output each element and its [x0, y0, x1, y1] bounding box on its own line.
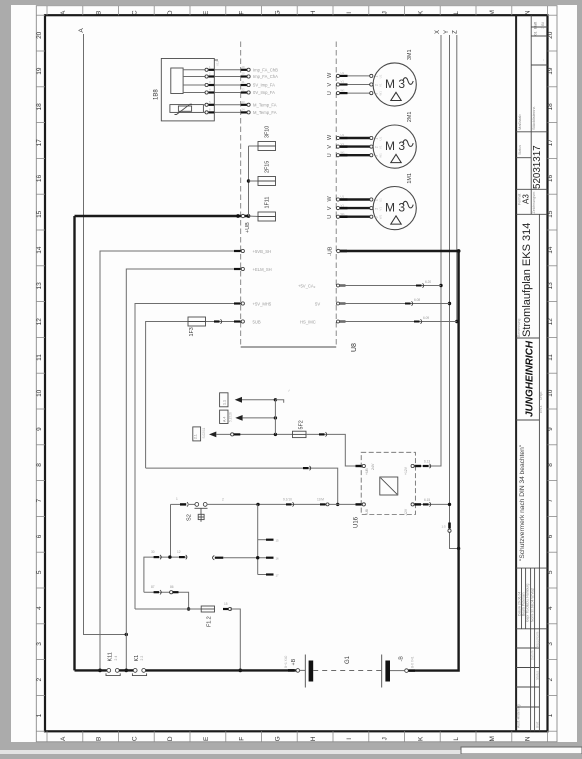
svg-text:E: E	[203, 736, 210, 741]
svg-text:24V: 24V	[371, 463, 375, 470]
svg-text:W1: W1	[379, 91, 383, 96]
wire junction column vertical	[274, 400, 276, 435]
svg-text:9.1/10: 9.1/10	[283, 498, 292, 502]
thermistor symbol	[178, 106, 191, 111]
svg-text:16: 16	[276, 557, 280, 561]
connector pin into U8 row 6	[241, 111, 248, 113]
wire rail 145 through 1F3	[146, 322, 241, 469]
connector pin pair out+	[423, 465, 429, 467]
svg-text:+5V_MH5: +5V_MH5	[253, 302, 272, 307]
switch S2 key switch	[195, 503, 199, 507]
junction U16 out- / Y	[448, 503, 451, 506]
svg-text:G: G	[274, 10, 281, 15]
svg-text:V1: V1	[379, 145, 383, 149]
junction Y / -B	[457, 547, 460, 550]
junction fuse feeder 2F15	[247, 179, 250, 182]
svg-text:5V_Imp_FA: 5V_Imp_FA	[253, 83, 275, 88]
svg-text:11: 11	[547, 354, 554, 361]
signature table top divider	[516, 567, 547, 569]
wire F1.2 feed	[189, 608, 202, 610]
svg-text:11/M: 11/M	[317, 498, 324, 502]
svg-text:A: A	[60, 10, 67, 15]
connector pin pair row 468	[303, 467, 309, 469]
svg-text:V1: V1	[379, 207, 383, 211]
svg-text:4: 4	[36, 606, 43, 610]
fuse 2F15	[258, 177, 276, 186]
fuse 3F10	[258, 142, 276, 151]
wire rail 100 to U8 pin	[100, 251, 241, 670]
svg-text:K11: K11	[108, 652, 114, 661]
connector pin battery plus	[288, 669, 295, 672]
svg-text:19: 19	[242, 65, 246, 69]
svg-text:M 3: M 3	[385, 77, 405, 91]
junction X / U8 wire	[439, 284, 442, 287]
svg-text:14: 14	[36, 246, 43, 254]
ruler row ticks right	[548, 14, 558, 16]
svg-text:17: 17	[547, 139, 554, 147]
svg-text:-UB: -UB	[365, 508, 369, 515]
sheet reference box 3	[193, 427, 201, 441]
svg-text:13: 13	[547, 282, 554, 290]
wire -UB thick to -B rail	[340, 250, 459, 252]
svg-text:B-6 X41: B-6 X41	[411, 656, 415, 668]
svg-text:X12: X12	[216, 60, 220, 66]
ruler column ticks bottom	[46, 731, 48, 742]
junction +UB fuse rail	[247, 214, 251, 218]
comb stub 2 dash	[266, 557, 274, 559]
converter U16 box (dashed)	[361, 452, 415, 514]
svg-text:L: L	[453, 737, 460, 741]
motor 2M1 feed wires	[336, 136, 339, 139]
motor 1M1 circle	[373, 187, 416, 230]
svg-text:6.15: 6.15	[424, 498, 430, 502]
wire Y vertical	[450, 35, 459, 549]
wire 1B8 signal row 6	[203, 111, 205, 113]
svg-text:5: 5	[36, 570, 43, 574]
svg-text:30: 30	[151, 550, 155, 554]
wire S2 row	[171, 503, 181, 505]
connector pin pair row592	[154, 591, 159, 593]
svg-text:B: B	[96, 11, 103, 15]
svg-text:K: K	[417, 10, 424, 15]
svg-text:V: V	[327, 145, 333, 149]
svg-text:13: 13	[36, 282, 43, 290]
svg-text:52031317: 52031317	[532, 145, 543, 189]
svg-text:Y: Y	[444, 30, 450, 34]
op-amp U8 right boundary (dashed)	[335, 42, 337, 348]
svg-text:-12V: -12V	[404, 508, 408, 516]
wire -B return thick	[415, 251, 459, 671]
motor 2M1 delta winding symbol	[391, 154, 401, 162]
svg-text:10: 10	[36, 389, 43, 397]
wire stub to 3F10	[249, 145, 259, 147]
motor 1M1 feed wires	[336, 198, 339, 201]
motor 3M1 delta winding symbol	[391, 92, 401, 100]
logo cell bottom divider	[516, 419, 539, 421]
svg-text:4: 4	[547, 606, 554, 610]
motor 3M1 circle	[373, 63, 416, 106]
svg-text:1: 1	[176, 497, 178, 501]
svg-text:1: 1	[547, 713, 554, 717]
svg-text:5: 5	[547, 570, 554, 574]
svg-text:18: 18	[547, 103, 554, 111]
title block divider	[531, 64, 547, 66]
wire S2 to U16	[207, 503, 355, 505]
comb stub 1	[258, 539, 266, 541]
svg-text:15: 15	[276, 539, 280, 543]
svg-text:6.13: 6.13	[424, 460, 430, 464]
revision table rows	[516, 628, 547, 630]
svg-text:9: 9	[36, 427, 43, 431]
svg-text:22: 22	[242, 88, 246, 92]
junction -UB corner	[457, 249, 461, 253]
title cell divider	[516, 213, 547, 215]
svg-text:A3: A3	[522, 194, 531, 204]
Massstab cell	[516, 131, 547, 133]
svg-text:F: F	[239, 737, 246, 741]
connector pin into U8 row 3	[241, 84, 248, 86]
svg-text:K1: K1	[134, 655, 140, 662]
connector pin pair after 5F2	[319, 433, 325, 435]
svg-text:S2: S2	[187, 514, 193, 521]
wire net A vertical	[84, 34, 127, 635]
junction ref1	[274, 398, 277, 401]
svg-text:3 Bl: 3 Bl	[541, 22, 545, 28]
svg-text:W1: W1	[341, 150, 346, 154]
connector pin U8 right -UB	[337, 249, 340, 252]
connector pin U16 in-	[356, 503, 362, 505]
connector pin +UB into U8	[241, 214, 244, 217]
wire U8 signal y303	[337, 302, 340, 305]
connector pin pair y285	[416, 285, 422, 287]
fuse 1F11	[258, 212, 276, 221]
wire +UB rail left vertical thick	[73, 216, 75, 670]
1B8 thermistor compartment	[170, 105, 204, 113]
svg-text:U: U	[327, 91, 333, 95]
svg-text:B: B	[96, 737, 103, 741]
wire ref2	[243, 417, 276, 419]
svg-text:M 3: M 3	[385, 139, 405, 153]
svg-text:C: C	[131, 10, 138, 15]
svg-text:1: 1	[36, 713, 43, 717]
svg-text:J: J	[382, 737, 389, 740]
junction Z / U8 wire	[455, 320, 458, 323]
wire battery bus thick	[75, 669, 107, 671]
junction F1.2 bus	[238, 669, 242, 673]
svg-text:HS_IMC: HS_IMC	[300, 320, 316, 325]
svg-text:15: 15	[547, 210, 554, 218]
connector pin pair row557	[154, 556, 159, 558]
sensor 1B8 connector tick	[214, 59, 218, 61]
svg-text:F: F	[239, 11, 246, 15]
contact K1	[133, 669, 137, 673]
wire bus segment to battery	[146, 669, 297, 671]
svg-text:I: I	[346, 738, 353, 740]
svg-text:Blatt: Blatt	[536, 722, 540, 728]
svg-text:86: 86	[170, 585, 174, 589]
svg-text:10: 10	[547, 389, 554, 397]
svg-text:16: 16	[36, 175, 43, 183]
svg-text:20: 20	[547, 31, 554, 39]
svg-text:6: 6	[36, 534, 43, 538]
svg-text:8: 8	[547, 463, 554, 467]
svg-text:7: 7	[36, 499, 43, 503]
connector pin into U8 row 2	[241, 75, 248, 77]
signature table columns	[521, 568, 523, 629]
svg-text:Status: Status	[518, 145, 522, 155]
title block left boundary	[515, 15, 517, 731]
connector pin U8 left y303	[234, 302, 241, 304]
Format cell	[516, 188, 547, 190]
svg-text:F1.2: F1.2	[207, 616, 213, 627]
wire ref3 to 5F2	[216, 433, 292, 435]
svg-text:2: 2	[547, 678, 554, 682]
title block column divider upper	[530, 15, 532, 214]
wire U8 signal y285	[337, 284, 340, 287]
svg-text:I: I	[346, 12, 353, 14]
svg-text:16: 16	[547, 175, 554, 183]
wire stub hook	[275, 400, 283, 403]
svg-text:W1: W1	[341, 212, 346, 216]
svg-text:Datum: Datum	[531, 650, 535, 660]
reference arrow 2.2	[235, 415, 242, 421]
wire X vertical	[415, 35, 441, 466]
svg-text:+UB: +UB	[245, 222, 251, 233]
wire stub to 2F15	[249, 180, 259, 182]
connector pin into U8 row 5	[241, 104, 248, 106]
svg-text:M: M	[489, 736, 496, 741]
svg-text:M: M	[489, 10, 496, 15]
wire stub to 1F11	[249, 215, 259, 218]
Status cell divider	[516, 157, 531, 159]
connector pin on Y wire	[448, 523, 451, 529]
connector pin pair out-	[423, 503, 429, 505]
svg-text:2 2: 2 2	[140, 656, 144, 661]
connector pin pair y321	[414, 321, 420, 323]
comb stub 3	[258, 574, 266, 576]
svg-text:1:5: 1:5	[442, 525, 447, 529]
connector pin pair S2 row a	[286, 503, 292, 505]
svg-text:V1: V1	[379, 83, 383, 87]
wire F1.2 to battery bus	[230, 609, 240, 670]
svg-text:12: 12	[36, 318, 43, 326]
svg-text:W1: W1	[379, 214, 383, 219]
connector pin pair row592 right	[170, 591, 173, 594]
svg-text:U16: U16	[354, 516, 360, 528]
svg-text:N: N	[525, 736, 532, 741]
wire ref1	[242, 399, 275, 401]
svg-text:3: 3	[36, 642, 43, 646]
motor 3M1 feed wires	[336, 74, 339, 77]
connector pin pair on 1F3 wire	[214, 320, 220, 322]
ruler row ticks left	[36, 14, 45, 16]
connector pin on ref3 wire	[231, 433, 234, 436]
wire comb vertical	[257, 504, 259, 574]
svg-text:Norm 30.68.04 W.Vogt: Norm 30.68.04 W.Vogt	[531, 588, 535, 622]
connector pin U8 left y321	[234, 320, 241, 322]
svg-text:"Schutzvermerk nach DIN 34 bea: "Schutzvermerk nach DIN 34 beachten"	[519, 444, 526, 561]
svg-text:8: 8	[36, 463, 43, 467]
wire 1B8 signal row 2	[183, 76, 206, 78]
svg-text:5V: 5V	[315, 302, 320, 307]
wire rail135 to F1.2	[135, 608, 189, 610]
wire rail 135 to U8 pin	[135, 304, 241, 610]
svg-text:17: 17	[276, 573, 280, 577]
svg-text:Ausf.-Änderung: Ausf.-Änderung	[517, 704, 521, 728]
svg-text:V: V	[327, 206, 333, 210]
svg-text:K: K	[417, 736, 424, 741]
connector pin pair S2 row b	[320, 503, 326, 505]
svg-text:D: D	[167, 736, 174, 741]
svg-text:+UB: +UB	[365, 468, 369, 475]
connector pin U16 out+	[411, 464, 414, 467]
battery G1 minus plates	[381, 655, 383, 688]
wire U16 out+ to X	[414, 465, 417, 467]
svg-text:Zeichnungsnr.: Zeichnungsnr.	[532, 191, 536, 214]
junction ref2	[274, 416, 277, 419]
svg-text:Stromlaufplan EKS 314: Stromlaufplan EKS 314	[521, 223, 533, 337]
junction rail126 battery bus	[124, 669, 128, 673]
svg-text:C: C	[131, 736, 138, 741]
svg-text:U8: U8	[351, 343, 358, 352]
wire U16 out- to Y	[421, 503, 450, 505]
svg-text:6.09: 6.09	[423, 316, 429, 320]
svg-text:JUNGHEINRICH: JUNGHEINRICH	[525, 340, 536, 417]
svg-text:19: 19	[547, 67, 554, 75]
svg-text:A.4: A.4	[223, 417, 227, 422]
wire 1B8 signal row 5	[203, 104, 205, 106]
junction rail100 battery bus	[98, 669, 102, 673]
svg-text:1M1: 1M1	[407, 173, 413, 184]
svg-text:B+1 X40: B+1 X40	[284, 655, 288, 668]
wire 5F2 to U16	[306, 434, 356, 466]
svg-text:E: E	[203, 10, 210, 15]
svg-text:19: 19	[36, 67, 43, 75]
connector pin U8 left y251	[234, 250, 241, 252]
svg-text:Blatt: Blatt	[534, 22, 538, 29]
svg-text:2.1: 2.1	[194, 434, 198, 439]
svg-text:U: U	[327, 215, 333, 219]
connector pin pair row557 right	[179, 556, 185, 558]
svg-text:U1: U1	[341, 195, 345, 199]
wire bus segment K11-K1	[119, 669, 133, 671]
wire into S2	[189, 503, 195, 505]
junction row557	[168, 555, 171, 558]
junction column 275	[274, 433, 277, 436]
svg-text:18: 18	[36, 103, 43, 111]
svg-text:6.08: 6.08	[414, 298, 420, 302]
sheet reference box 2.1	[220, 393, 228, 407]
svg-text:Status: Status	[536, 671, 540, 680]
svg-text:M 3: M 3	[385, 201, 405, 215]
svg-text:3F10: 3F10	[265, 126, 271, 138]
svg-text:U1: U1	[341, 133, 345, 137]
reference arrow 3	[209, 432, 216, 438]
svg-text:V1: V1	[341, 142, 345, 146]
svg-text:24: 24	[242, 108, 246, 112]
wire fuse feeder vertical	[248, 146, 250, 216]
connector pin into U8 row 4	[241, 91, 248, 93]
svg-text:12: 12	[177, 550, 181, 554]
svg-text:14: 14	[547, 246, 554, 254]
svg-text:V: V	[327, 83, 333, 87]
svg-text:-UB: -UB	[328, 246, 334, 256]
wire row 557	[144, 557, 187, 592]
svg-text:Stücklistennr.: Stücklistennr.	[531, 106, 536, 130]
svg-text:+ELM_SH: +ELM_SH	[253, 267, 272, 272]
wire S2 branch down	[170, 504, 172, 557]
wire row 592	[144, 592, 189, 609]
svg-text:7: 7	[547, 499, 554, 503]
svg-text:15: 15	[36, 210, 43, 218]
junction F1.2 node	[187, 607, 190, 610]
reference arrow 2.1	[235, 397, 242, 403]
svg-text:9: 9	[547, 427, 554, 431]
svg-text:H: H	[310, 10, 317, 15]
svg-text:3: 3	[547, 642, 554, 646]
wire U8 signal y321	[337, 320, 340, 323]
svg-text:6.20: 6.20	[425, 280, 431, 284]
svg-text:2: 2	[222, 498, 224, 502]
svg-text:M_Temp_FA: M_Temp_FA	[253, 102, 277, 107]
junction S2 row comb	[256, 503, 259, 506]
svg-text:2F15: 2F15	[265, 161, 271, 173]
svg-text:0V_Imp_FA: 0V_Imp_FA	[253, 90, 275, 95]
battery G1 plus plates	[300, 669, 306, 671]
svg-text:Ers.f.: Ers.f.	[539, 405, 543, 413]
svg-text:5.1526: 5.1526	[229, 412, 233, 422]
svg-text:Imp_FA_ChB: Imp_FA_ChB	[253, 67, 278, 72]
svg-text:1F3: 1F3	[189, 327, 195, 336]
svg-text:X: X	[435, 30, 441, 34]
svg-text:5F2: 5F2	[299, 420, 305, 429]
svg-text:U1: U1	[379, 198, 383, 202]
wire +UB thick horizontal	[75, 215, 249, 217]
svg-text:U: U	[327, 153, 333, 157]
junction row468 drop	[336, 503, 339, 506]
wire rail 126 to U8 pin	[126, 269, 240, 670]
svg-text:Näpp.Norm: Näpp.Norm	[536, 631, 540, 648]
svg-text:U1: U1	[379, 74, 383, 78]
svg-text:D: D	[167, 10, 174, 15]
svg-text:A: A	[78, 28, 85, 33]
svg-text:L: L	[453, 11, 460, 15]
connector pin U16 in+	[356, 465, 362, 467]
svg-text:15: 15	[224, 602, 228, 606]
junction Y / U8 wire	[448, 302, 451, 305]
motor 2M1 circle	[373, 125, 416, 168]
svg-text:W1: W1	[341, 88, 346, 92]
svg-text:17: 17	[36, 139, 43, 147]
svg-text:12: 12	[547, 318, 554, 326]
connector pin battery minus	[405, 669, 409, 673]
svg-text:S.02/11: S.02/11	[202, 428, 206, 439]
svg-text:Maßstab: Maßstab	[517, 114, 522, 130]
svg-text:G1: G1	[345, 655, 351, 664]
svg-text:-B: -B	[399, 656, 405, 662]
wire row 468	[146, 468, 338, 504]
svg-text:1F11: 1F11	[265, 197, 271, 209]
svg-text:W1: W1	[379, 153, 383, 158]
svg-text:Gepr Tb.OEDu. Hamburg: Gepr Tb.OEDu. Hamburg	[526, 584, 530, 622]
comb incoming wire	[213, 556, 215, 560]
junction A/K-rail	[125, 633, 128, 636]
svg-text:G: G	[274, 736, 281, 741]
svg-text:2: 2	[36, 678, 43, 682]
svg-text:V1: V1	[341, 80, 345, 84]
svg-text:2 4: 2 4	[114, 656, 118, 661]
U16 inner converter square	[380, 477, 398, 495]
